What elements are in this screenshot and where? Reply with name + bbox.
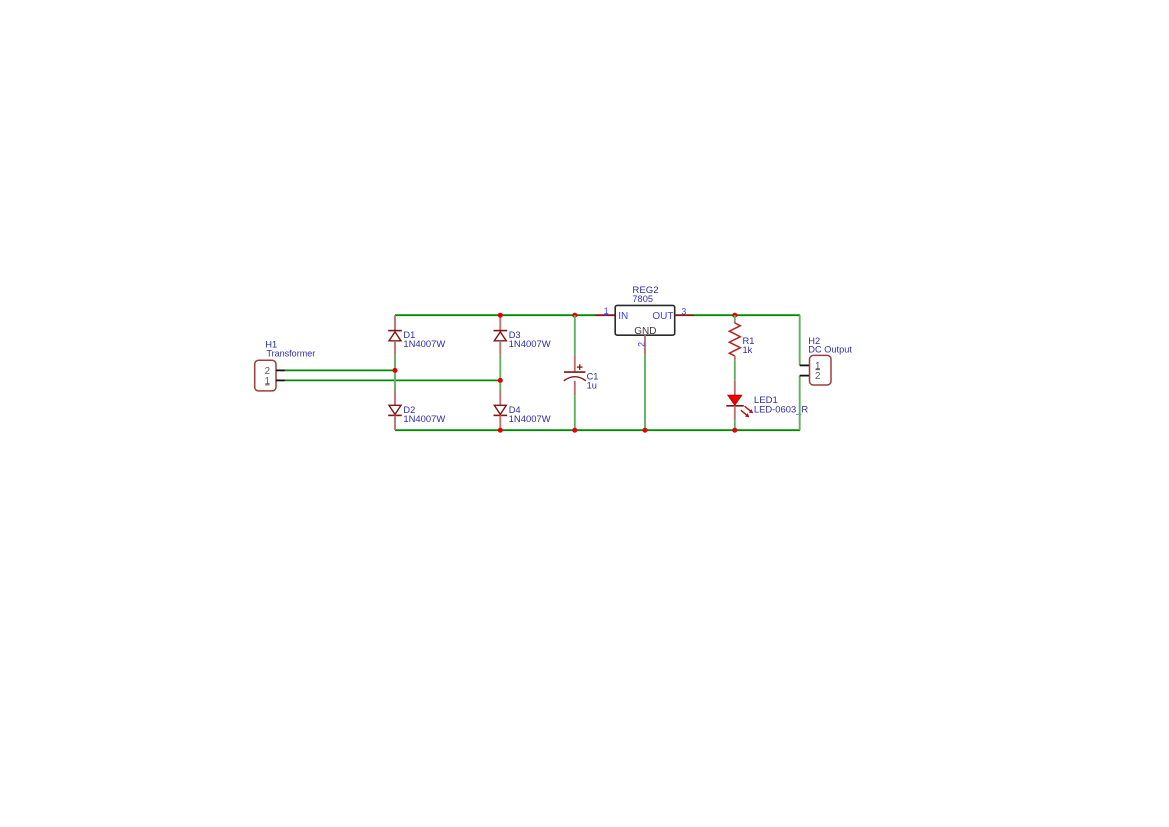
- wire node B vertical: [499, 355, 501, 391]
- svg-text:1N4007W: 1N4007W: [509, 414, 551, 424]
- wire LED1 to bottom rail: [734, 420, 736, 430]
- svg-text:1N4007W: 1N4007W: [403, 339, 445, 349]
- svg-text:2: 2: [815, 371, 820, 382]
- svg-text:1u: 1u: [587, 380, 597, 390]
- pin C1 minus: [574, 381, 576, 395]
- pin D2 bottom: [394, 415, 396, 430]
- pin REG2 pin3 stub: [675, 314, 694, 316]
- pin REG2 pin2 GND stub: [644, 335, 646, 355]
- junction D4 bottom rail: [498, 428, 503, 433]
- pin D4 top: [499, 391, 501, 406]
- connector H2: [800, 355, 831, 385]
- svg-text:1N4007W: 1N4007W: [403, 414, 445, 424]
- junction C1 bottom rail: [572, 428, 577, 433]
- wire right vertical top: [799, 315, 801, 365]
- pin R1 top: [734, 321, 736, 324]
- junction C1 top rail: [572, 313, 577, 318]
- pin D3 top: [499, 315, 501, 330]
- junction R1 top rail: [732, 313, 737, 318]
- pin D2 top: [394, 391, 396, 406]
- junction GND bottom rail: [643, 428, 648, 433]
- wire R1 to LED1: [734, 360, 736, 381]
- pin number 2: [636, 342, 646, 347]
- capacitor C1: [564, 364, 586, 381]
- junction D3 top rail: [498, 313, 503, 318]
- svg-text:Transformer: Transformer: [267, 349, 316, 359]
- wire top rail right segment: [694, 314, 800, 316]
- wire right vertical bottom: [799, 376, 801, 431]
- resistor R1: [729, 323, 740, 356]
- svg-text:1: 1: [265, 376, 270, 387]
- wire bottom rail: [395, 429, 800, 431]
- svg-text:OUT: OUT: [652, 311, 673, 322]
- diode D4: [494, 405, 508, 415]
- pin REG2 pin1 stub: [595, 314, 615, 316]
- pin LED1 anode: [734, 381, 736, 396]
- pin D4 bottom: [499, 415, 501, 430]
- diode D1: [388, 331, 402, 341]
- svg-text:DC Output: DC Output: [808, 344, 852, 354]
- pin LED1 cathode: [734, 406, 736, 420]
- svg-text:IN: IN: [618, 311, 628, 322]
- junction node B: [498, 378, 503, 383]
- svg-text:3: 3: [681, 306, 686, 316]
- wire node A vertical: [394, 355, 396, 391]
- svg-text:1N4007W: 1N4007W: [509, 339, 551, 349]
- pin number 3: [681, 306, 686, 316]
- pin C1 plus: [574, 355, 576, 371]
- wire C1 top: [574, 315, 576, 355]
- wire C1 bottom: [574, 395, 576, 430]
- connector H1: [255, 360, 285, 391]
- wire H1 pin2 to node A: [285, 369, 395, 371]
- pin D3 anode: [499, 341, 501, 355]
- svg-text:7805: 7805: [632, 294, 653, 304]
- wire top rail left segment: [395, 314, 596, 316]
- diode D2: [388, 405, 402, 415]
- junction node A: [393, 368, 398, 373]
- wire R1 top: [734, 315, 736, 321]
- wire H1 pin1 to node B: [285, 379, 501, 381]
- svg-text:1k: 1k: [743, 345, 753, 355]
- LED LED1: [726, 395, 753, 417]
- pin D1 anode: [394, 341, 396, 355]
- junction LED1 bottom rail: [732, 428, 737, 433]
- pin number 1: [604, 306, 609, 316]
- pin R1 bottom: [734, 356, 736, 360]
- left column pin of D1 top: [394, 315, 396, 330]
- svg-text:2: 2: [636, 342, 646, 347]
- regulator U REG2 box: [615, 305, 675, 335]
- diode D3: [494, 331, 508, 341]
- wire GND to bottom rail: [644, 355, 646, 430]
